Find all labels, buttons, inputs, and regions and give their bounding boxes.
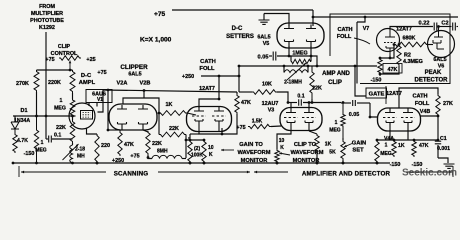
- wire V4 out to 27K bottom: [421, 115, 440, 118]
- svg-text:+75: +75: [154, 11, 166, 18]
- inductor 8MH: [148, 149, 186, 159]
- svg-text:K=X 1,000: K=X 1,000: [140, 37, 172, 44]
- svg-text:FOLL: FOLL: [337, 34, 352, 40]
- capacitor C2: [438, 23, 458, 31]
- tube CF triode A: [192, 107, 206, 132]
- svg-text:V2A: V2A: [117, 81, 128, 87]
- wire wiper node: [37, 69, 73, 72]
- svg-text:+250: +250: [182, 74, 194, 80]
- label -150 (V7): [371, 74, 382, 84]
- node: input label FROM MULTIPLIER PHOTOTUBE K1292: [30, 4, 64, 31]
- wire 1MEG to bus right: [313, 56, 318, 67]
- svg-text:2-18: 2-18: [75, 147, 85, 153]
- tube V4 triode A: [383, 109, 397, 132]
- svg-text:+75: +75: [97, 70, 106, 76]
- resistor 10K: [252, 82, 288, 103]
- svg-text:270K: 270K: [16, 81, 29, 87]
- svg-text:10: 10: [208, 145, 214, 151]
- label 12AT7 (mid): [199, 86, 215, 92]
- svg-text:K: K: [280, 145, 284, 151]
- svg-text:+75: +75: [130, 154, 139, 160]
- label box GATE: [366, 86, 387, 104]
- svg-text:1: 1: [60, 98, 63, 104]
- resistor 1MEG (V5): [288, 51, 313, 64]
- resistor 220 (V1 cathode): [87, 128, 111, 165]
- bus +75 top: [154, 10, 313, 18]
- resistor 22K (amp): [310, 66, 322, 103]
- wire V5 pins down: [289, 46, 311, 56]
- wire V4 plate up to 27K: [399, 88, 438, 108]
- label AMPLIFIER AND DETECTOR mask: [288, 168, 406, 178]
- tube V3 triode B: [302, 109, 316, 131]
- wiper arrow gain: [221, 149, 234, 152]
- svg-text:FOLL: FOLL: [199, 66, 215, 72]
- svg-text:CLIP TO: CLIP TO: [294, 142, 317, 148]
- resistor 47K (V7 cath): [378, 57, 402, 76]
- svg-text:22K: 22K: [152, 141, 162, 147]
- svg-text:6AL5: 6AL5: [433, 57, 446, 63]
- label CATH FOLL (right): [337, 27, 370, 44]
- wire V2B drop: [143, 91, 145, 99]
- svg-text:MEG: MEG: [35, 148, 47, 154]
- tube V1 6AU6 envelope: [69, 103, 95, 129]
- junction dots ground bus: [12, 162, 379, 165]
- svg-text:2-18MH: 2-18MH: [284, 80, 302, 86]
- tube CF triode B: [212, 107, 226, 132]
- resistor 270K: [16, 70, 39, 116]
- tube V3 triode A: [284, 109, 298, 131]
- svg-text:V5: V5: [263, 41, 270, 47]
- wire bottom bus y140: [186, 139, 204, 141]
- svg-text:1: 1: [335, 120, 338, 126]
- junction 22K bottom: [147, 156, 150, 159]
- tube CF 12AT7 (mid): [187, 107, 232, 132]
- resistor 1MEG (lower left): [34, 116, 47, 164]
- tube V2 diode B: [138, 105, 148, 130]
- tube V4 12AT7 gate: [378, 108, 421, 131]
- resistor 1MEG (grid upper): [54, 98, 75, 117]
- svg-text:47K: 47K: [124, 142, 134, 148]
- capacitor 0.05 (gate): [343, 100, 370, 118]
- wiper arrow clip control: [69, 61, 72, 71]
- svg-text:V2B: V2B: [140, 81, 151, 87]
- label CLIPPER 6AL5: [120, 64, 148, 78]
- svg-text:CATH: CATH: [200, 59, 216, 65]
- svg-text:0.22: 0.22: [419, 21, 430, 27]
- svg-text:1: 1: [385, 143, 388, 149]
- tube V5 6AL5 d-c setters: [277, 23, 324, 48]
- label 12AT7 (gate): [386, 91, 402, 97]
- label GAIN SET: [352, 141, 367, 154]
- svg-text:22K: 22K: [56, 125, 66, 131]
- svg-text:12AU7: 12AU7: [262, 101, 279, 107]
- svg-text:+75: +75: [236, 125, 245, 131]
- svg-text:WAVEFORM: WAVEFORM: [237, 150, 270, 156]
- label box 6AU6 V1: [86, 90, 112, 104]
- label AMP AND CLIP: [322, 71, 350, 86]
- wire grid bus y90: [103, 90, 237, 92]
- tube V4 triode B: [401, 109, 415, 132]
- label CLIP CONTROL: [51, 44, 78, 57]
- potentiometer 10K (clip): [275, 138, 285, 164]
- label V7: [363, 26, 370, 32]
- svg-text:1N34A: 1N34A: [14, 118, 30, 124]
- svg-text:V4A: V4A: [384, 136, 394, 142]
- svg-text:8MH: 8MH: [157, 149, 168, 155]
- svg-text:0.05: 0.05: [349, 112, 360, 118]
- wire 220K bottom to grid column: [72, 93, 74, 99]
- junction dots +250: [218, 75, 241, 78]
- svg-text:D-C: D-C: [232, 26, 243, 32]
- tube V5 diode A: [284, 25, 294, 48]
- svg-text:MEG: MEG: [54, 106, 66, 112]
- svg-text:GAIN: GAIN: [352, 141, 367, 147]
- resistor 1.5K: [236, 119, 281, 132]
- resistor 1MEG (V4A): [375, 136, 394, 164]
- junction dots input node: [35, 115, 47, 118]
- resistor 1K (interstage): [158, 102, 187, 115]
- svg-text:MULTIPLIER: MULTIPLIER: [31, 11, 63, 17]
- label SCANNING: [114, 171, 149, 178]
- svg-text:12AT7: 12AT7: [396, 27, 412, 33]
- svg-text:MEG: MEG: [329, 128, 341, 134]
- resistor 1MEG (V3 plate): [329, 101, 345, 138]
- svg-text:680K: 680K: [403, 36, 416, 42]
- label -150 (left): [24, 151, 35, 157]
- svg-text:220: 220: [101, 143, 110, 149]
- svg-text:FROM: FROM: [39, 4, 55, 10]
- label D-C SETTERS: [226, 26, 270, 47]
- resistor 1K (V3 cath): [315, 134, 319, 164]
- dimension line amplifier and detector: [254, 166, 453, 177]
- svg-text:AMP AND: AMP AND: [322, 71, 350, 77]
- svg-text:1K: 1K: [325, 142, 332, 148]
- svg-text:V4B: V4B: [420, 109, 431, 115]
- svg-text:10: 10: [279, 138, 285, 144]
- resistor 1K (V4): [392, 140, 405, 157]
- wire inductor to ground bus: [71, 162, 74, 165]
- label CLIP TO WAVEFORM MONITOR: [290, 142, 323, 164]
- label +250 (CF): [182, 74, 239, 80]
- label +75 (clipper): [130, 154, 139, 160]
- labels -150 -150 (gate): [390, 162, 423, 168]
- wire 680K to V6: [428, 44, 433, 46]
- tube V7 12AT7 (right): [377, 29, 400, 52]
- label C2: [441, 21, 448, 27]
- label D-C AMPL +75: [79, 70, 107, 86]
- wire CF out riser: [239, 66, 252, 92]
- wire CF plates bridge: [199, 76, 220, 108]
- svg-text:27K: 27K: [443, 101, 453, 107]
- resistor 22K (interstage): [159, 113, 187, 158]
- wire gate grid: [369, 103, 378, 118]
- label +250 (clipper): [112, 158, 124, 164]
- svg-text:PHOTOTUBE: PHOTOTUBE: [30, 18, 64, 24]
- wire input node: [13, 115, 76, 117]
- resistor 220K: [48, 70, 75, 93]
- wire CF grid: [187, 113, 196, 115]
- svg-text:-150: -150: [24, 151, 35, 157]
- svg-text:0.05: 0.05: [258, 55, 269, 61]
- svg-text:-150: -150: [390, 162, 401, 168]
- tube V2 diode A: [117, 105, 127, 130]
- svg-text:MEG: MEG: [380, 151, 392, 157]
- svg-text:220K: 220K: [48, 80, 61, 86]
- svg-text:K1292: K1292: [39, 25, 55, 31]
- svg-text:1K: 1K: [166, 102, 173, 108]
- wire y140 bus (gate): [376, 139, 440, 142]
- svg-text:V6: V6: [438, 64, 445, 70]
- svg-text:(2): (2): [194, 146, 200, 152]
- svg-text:K: K: [209, 152, 213, 158]
- diode D1 1N34A: [11, 108, 30, 133]
- label +75 left of clip pot: [45, 57, 54, 63]
- wire V7 cathode node: [380, 43, 395, 59]
- capacitor 0.05 (V5): [258, 52, 313, 61]
- wire amp-clip to gate cap: [354, 65, 377, 96]
- tube V5 diode B: [306, 25, 316, 48]
- ground above V5: [259, 14, 290, 27]
- resistor 22K (clipper): [143, 130, 162, 155]
- ground (bottom right): [438, 158, 455, 168]
- resistor 22K (grid lower): [56, 116, 75, 143]
- svg-text:Seekic.com: Seekic.com: [402, 168, 457, 179]
- svg-text:0.1: 0.1: [297, 94, 304, 100]
- svg-text:6AL5: 6AL5: [257, 35, 270, 41]
- resistor 47K (clipper): [118, 130, 134, 156]
- capacitor 0.1 (mid): [287, 94, 341, 106]
- svg-text:+75: +75: [45, 57, 54, 63]
- wire left drop x108: [107, 90, 120, 131]
- svg-text:47K: 47K: [419, 143, 429, 149]
- label CATH FOLL (mid): [199, 59, 215, 72]
- wire bus corner into V5: [312, 10, 458, 26]
- resistor R2 4.3MEG: [380, 43, 423, 74]
- resistor 47K (V4): [412, 140, 429, 157]
- label SCANNING mask: [106, 168, 158, 178]
- capacitor 0.1 (left): [46, 116, 73, 143]
- watermark Seekic.com: [402, 168, 457, 179]
- dimension line scanning: [19, 166, 250, 177]
- svg-text:CLIP: CLIP: [328, 80, 342, 86]
- potentiometer 5K / GAIN SET: [325, 138, 352, 164]
- label PEAK DETECTOR: [415, 70, 449, 84]
- svg-text:V1: V1: [97, 97, 103, 103]
- capacitor C1 0.001: [435, 116, 450, 158]
- svg-text:GAIN TO: GAIN TO: [239, 142, 263, 148]
- wire V6 to C2: [437, 25, 440, 31]
- tube V1 6AU6 element: [81, 111, 93, 120]
- svg-text:12AT7: 12AT7: [199, 86, 215, 92]
- label +25 right of clip pot: [86, 57, 95, 63]
- svg-text:FOLL: FOLL: [415, 101, 430, 107]
- wiper arrow clip: [279, 152, 290, 155]
- label CATH FOLL V4B: [412, 94, 430, 116]
- resistor 680K: [394, 36, 428, 47]
- label GAIN TO WAVEFORM MONITOR: [237, 142, 270, 164]
- svg-text:1MEG: 1MEG: [292, 51, 307, 57]
- tube V7 interior: [384, 30, 396, 56]
- svg-text:MH: MH: [77, 154, 85, 160]
- svg-text:CATH: CATH: [337, 27, 352, 33]
- tube V3 12AU7: [280, 108, 322, 131]
- svg-text:C2: C2: [441, 21, 448, 27]
- capacitor 0.22: [390, 21, 437, 31]
- tube V2 6AL5 clipper: [109, 104, 157, 130]
- wire V3 cathode left: [277, 131, 291, 149]
- junction dots grid bus: [107, 89, 146, 92]
- potentiometer 10K (gain): [202, 139, 214, 165]
- svg-text:WAVEFORM: WAVEFORM: [290, 150, 323, 156]
- svg-text:SCANNING: SCANNING: [114, 171, 149, 178]
- tube V6 6AL5 peak det: [428, 31, 455, 58]
- labels V2A V2B: [117, 81, 151, 87]
- wire CF cathode join: [188, 114, 237, 138]
- svg-text:6AL5: 6AL5: [128, 72, 141, 78]
- label 12AU7 V3: [262, 101, 279, 114]
- variable inductor 2-18MH (left): [63, 143, 86, 163]
- wire V2 plate bridge: [123, 98, 159, 113]
- svg-text:22K: 22K: [169, 126, 179, 132]
- svg-text:AMPL: AMPL: [79, 80, 96, 86]
- svg-text:47K: 47K: [241, 100, 251, 106]
- svg-text:4.3MEG: 4.3MEG: [403, 59, 423, 65]
- svg-text:GATE: GATE: [369, 92, 385, 98]
- svg-text:R2: R2: [404, 53, 411, 59]
- svg-text:CLIP: CLIP: [58, 44, 71, 50]
- tube V6 interior: [433, 32, 444, 50]
- svg-text:4.7K: 4.7K: [17, 138, 28, 144]
- svg-text:PEAK: PEAK: [425, 70, 442, 76]
- svg-text:DETECTOR: DETECTOR: [415, 78, 449, 84]
- wire V3 plates up: [291, 101, 310, 109]
- wire V3 cathode right: [309, 131, 317, 134]
- svg-text:SETTERS: SETTERS: [226, 34, 254, 40]
- svg-text:AMPLIFIER AND DETECTOR: AMPLIFIER AND DETECTOR: [302, 171, 391, 178]
- svg-text:V7: V7: [363, 26, 370, 32]
- svg-text:0.1: 0.1: [54, 133, 61, 139]
- ground bus: [13, 162, 390, 164]
- svg-text:10K: 10K: [262, 82, 272, 88]
- label 12AT7 (right): [396, 27, 412, 33]
- variable inductor 2-18MH (mid): [283, 63, 310, 86]
- svg-text:1: 1: [41, 140, 44, 146]
- wire V1 screen: [89, 103, 97, 107]
- resistor 27K: [436, 94, 453, 116]
- wire phototube input down: [45, 32, 47, 116]
- svg-text:5K: 5K: [329, 150, 336, 156]
- box peak detector: [330, 14, 450, 84]
- resistor 4.7K: [13, 133, 28, 153]
- svg-text:D-C: D-C: [81, 73, 92, 79]
- svg-text:CATH: CATH: [412, 94, 427, 100]
- svg-text:1.5K: 1.5K: [252, 119, 263, 125]
- bus +75 to amp-clip: [238, 65, 355, 68]
- svg-text:+25: +25: [86, 57, 95, 63]
- junction bus to box: [357, 16, 366, 84]
- resistor 47K (CF load): [235, 92, 251, 114]
- label 6AL5 V6 (peak): [433, 57, 446, 70]
- label AMPLIFIER AND DETECTOR: [302, 171, 391, 178]
- svg-text:-150: -150: [371, 78, 382, 84]
- resistor (2)100K: [188, 139, 204, 165]
- svg-text:CLIPPER: CLIPPER: [120, 64, 148, 71]
- svg-text:47K: 47K: [388, 67, 398, 73]
- svg-text:V3: V3: [268, 108, 275, 114]
- label K=X 1,000: [140, 37, 172, 44]
- potentiometer clip control: [59, 56, 81, 61]
- svg-text:D1: D1: [21, 108, 28, 114]
- wire V4 cathodes down: [390, 130, 408, 140]
- svg-text:SET: SET: [352, 148, 364, 154]
- svg-text:0.001: 0.001: [437, 146, 450, 152]
- wire V1 plate up: [98, 90, 104, 112]
- svg-text:1K: 1K: [398, 143, 405, 149]
